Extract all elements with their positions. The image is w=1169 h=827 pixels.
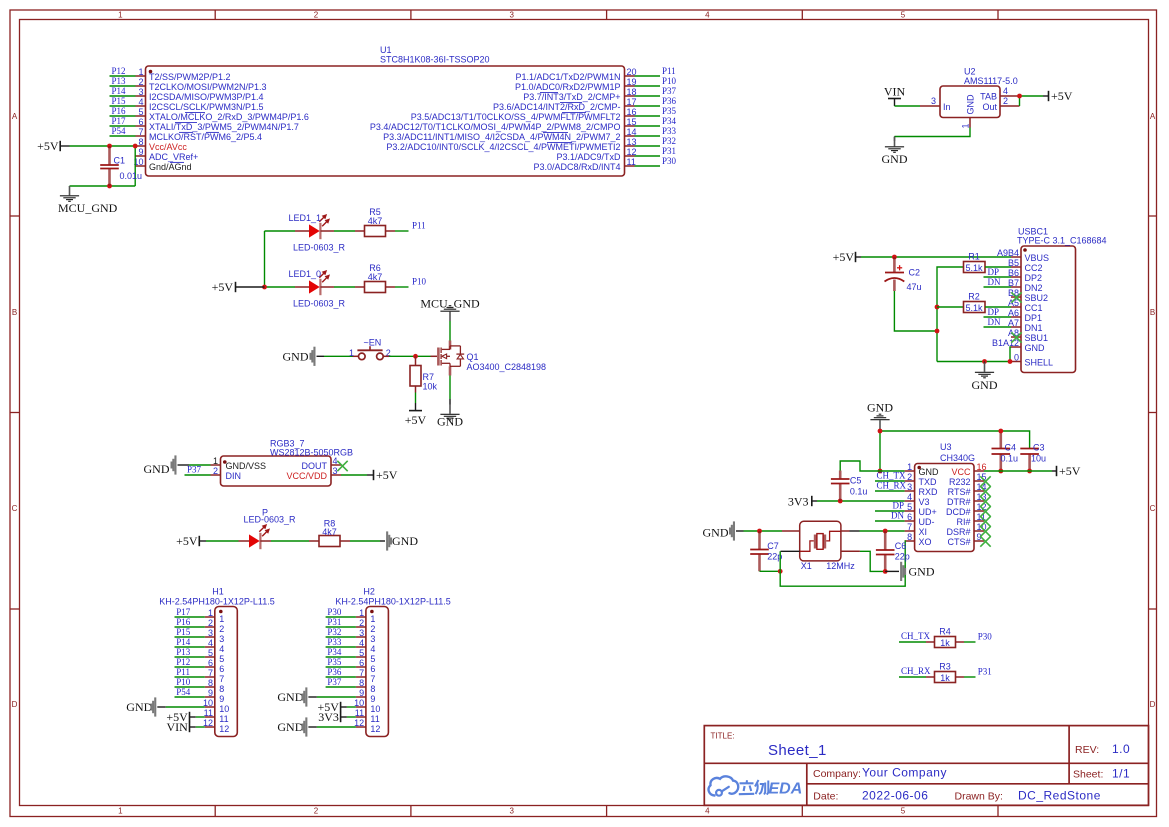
H2 pin 7: [356, 668, 376, 684]
svg-text:1: 1: [213, 456, 218, 466]
svg-text:Company:: Company:: [813, 768, 861, 780]
svg-text:GND: GND: [919, 467, 940, 477]
svg-text:TITLE:: TITLE:: [711, 732, 735, 741]
svg-text:5: 5: [370, 654, 375, 664]
svg-text:P32: P32: [662, 136, 676, 146]
U3 pin 15 R232: [949, 472, 987, 487]
svg-text:4k7: 4k7: [368, 272, 383, 282]
svg-text:P36: P36: [662, 96, 677, 106]
U1 pin 6 XTALI/TxD_3/PWM5_2/PWM4N/P1.7: [136, 117, 299, 132]
svg-text:8: 8: [208, 678, 213, 688]
svg-text:P31: P31: [978, 667, 992, 677]
svg-text:P30: P30: [978, 632, 993, 642]
svg-text:7: 7: [219, 674, 224, 684]
junction U2 TAB/Out: [1017, 94, 1022, 99]
connector H2 KH-2.54PH180-1X12P-L11.5 body: [335, 586, 450, 736]
RGB3_7 pin 1 GND/VSS: [211, 456, 267, 471]
svg-text:11: 11: [204, 708, 213, 718]
svg-text:P34: P34: [327, 647, 342, 657]
EasyEDA logo: [709, 776, 803, 797]
svg-text:MCU_GND: MCU_GND: [58, 201, 118, 215]
U1 pin 12 P3.1/ADC9/TxD: [556, 147, 636, 162]
svg-text:P10: P10: [662, 76, 677, 86]
H1 pin 8: [205, 678, 225, 694]
svg-text:VCC: VCC: [951, 467, 971, 477]
junction C6 bottom: [883, 569, 888, 574]
svg-text:Vcc/AVcc: Vcc/AVcc: [149, 142, 187, 152]
svg-text:3V3: 3V3: [788, 494, 809, 508]
wire and node P10 to H1 pin 8: [175, 677, 205, 687]
svg-text:4: 4: [219, 644, 224, 654]
svg-text:GND: GND: [283, 349, 309, 363]
svg-text:P1.0/ADC0/RxD2/PWM1P: P1.0/ADC0/RxD2/PWM1P: [515, 82, 621, 92]
svg-text:2: 2: [907, 472, 912, 482]
H2 pin 1: [356, 608, 376, 624]
svg-text:VIN: VIN: [884, 85, 906, 99]
U1 pin 9 ADC_VRef+: [136, 147, 199, 162]
wire crystal right-bottom to GND: [841, 551, 885, 571]
svg-text:GND: GND: [867, 401, 893, 415]
capacitor C3 10u: [1020, 442, 1046, 471]
ground flag GND (switch): [283, 347, 325, 366]
svg-text:SBU2: SBU2: [1025, 293, 1049, 303]
resistor R7 10k: [410, 356, 438, 392]
H2 pin 10: [354, 698, 380, 714]
svg-text:3: 3: [370, 634, 375, 644]
svg-text:DP: DP: [892, 501, 904, 511]
H2 pin 2: [356, 618, 376, 634]
svg-text:R4: R4: [939, 627, 951, 637]
svg-text:3: 3: [509, 807, 514, 816]
wire C5 top to GND net: [840, 461, 880, 471]
wire R8 to GND: [350, 540, 385, 542]
resistor R6 4k7: [334, 263, 395, 293]
svg-text:4: 4: [208, 638, 213, 648]
svg-text:4: 4: [1003, 86, 1008, 96]
wire and node P37 to RGB DIN: [185, 465, 211, 475]
junction C2 branch: [935, 329, 940, 334]
svg-text:P36: P36: [327, 667, 342, 677]
svg-text:LED1_0: LED1_0: [289, 269, 322, 279]
connector USBC1 TYPE-C 3.1_C168684 body: [1017, 226, 1107, 372]
svg-text:P11: P11: [662, 66, 676, 76]
svg-text:CH340G: CH340G: [940, 453, 975, 463]
svg-text:7: 7: [138, 127, 143, 137]
svg-text:Date:: Date:: [813, 791, 838, 803]
wire +5V branch between LED rows: [264, 231, 266, 287]
wire C7 bottom node: [760, 570, 781, 572]
USBC1 pin A7 DN1: [1008, 318, 1043, 333]
svg-text:A: A: [1150, 112, 1156, 121]
wire and node P17 to H1 pin 1: [175, 607, 205, 617]
svg-text:C5: C5: [850, 476, 862, 486]
U1 pin 4 I2CSCL/SCLK/PWM3N/P1.5: [136, 97, 264, 112]
svg-text:C: C: [1150, 504, 1156, 513]
svg-text:GND: GND: [144, 462, 170, 476]
svg-text:+5V: +5V: [176, 534, 198, 548]
wire and node P10 from U1 pin 19: [635, 76, 677, 86]
U3 pin 14 RTS#: [948, 482, 987, 497]
svg-text:P33: P33: [327, 637, 342, 647]
capacitor C6 22p: [876, 531, 910, 571]
svg-text:0.01u: 0.01u: [120, 171, 143, 181]
wire and node P11 from U1 pin 20: [635, 66, 676, 76]
svg-text:1: 1: [961, 123, 971, 128]
H1 pin 2: [205, 618, 225, 634]
wire and node P35 from U1 pin 16: [635, 106, 677, 116]
svg-text:+5V: +5V: [1059, 464, 1081, 478]
svg-text:I2CSDA/MISO/PWM3P/P1.4: I2CSDA/MISO/PWM3P/P1.4: [149, 92, 264, 102]
U3 pin 4 V3: [905, 492, 930, 507]
svg-text:8: 8: [907, 532, 912, 542]
svg-text:12: 12: [219, 724, 229, 734]
svg-text:1: 1: [208, 608, 213, 618]
junction XO branch: [778, 569, 783, 574]
wire +5V to VBUS: [861, 256, 1011, 258]
wire R4 to P30: [964, 632, 992, 643]
svg-text:6: 6: [208, 658, 213, 668]
wire GND to H1 pin 10: [166, 706, 205, 708]
svg-text:AO3400_C2848198: AO3400_C2848198: [467, 362, 547, 372]
wire VIN to U2 In: [895, 105, 921, 107]
svg-text:MCU_GND: MCU_GND: [420, 296, 480, 310]
svg-text:11: 11: [355, 708, 364, 718]
U1 pin 1 T2/SS/PWM2P/P1.2: [136, 67, 231, 82]
svg-text:6: 6: [370, 664, 375, 674]
wire MCU_GND to Q1 drain: [449, 321, 451, 341]
svg-text:4: 4: [907, 492, 912, 502]
junction U3 pin1 node: [878, 469, 883, 474]
svg-text:U1: U1: [380, 45, 392, 55]
H2 pin-1 marker: [370, 610, 374, 614]
wire and node P33 to H2 pin 4: [326, 637, 356, 647]
wire Q1 source to GND: [449, 376, 451, 405]
H2 pin 11: [355, 708, 380, 724]
svg-text:VBUS: VBUS: [1025, 253, 1050, 263]
wire and node P13 to U1 pin 2: [110, 76, 136, 86]
wire and node CH_TX to R4: [899, 631, 931, 642]
svg-text:7: 7: [907, 522, 912, 532]
regulator U2 AMS1117-5.0 body: [940, 67, 1018, 118]
junction +5V LED branch: [262, 285, 267, 290]
H1 pin 1: [205, 608, 225, 624]
svg-text:8: 8: [370, 684, 375, 694]
svg-text:T2CLKO/MOSI/PWM2N/P1.3: T2CLKO/MOSI/PWM2N/P1.3: [149, 82, 267, 92]
power flag +5V (H2 pin 10): [317, 700, 346, 714]
U1 pin-1 marker: [149, 70, 153, 74]
svg-text:TXD: TXD: [919, 477, 938, 487]
svg-text:6: 6: [219, 664, 224, 674]
svg-text:CH_TX: CH_TX: [877, 471, 907, 481]
wire GND rail above U3: [880, 431, 1030, 449]
svg-text:+5V: +5V: [37, 139, 59, 153]
svg-text:B: B: [1150, 308, 1155, 317]
wire GND to crystal: [744, 530, 783, 532]
svg-text:12MHz: 12MHz: [826, 561, 855, 571]
svg-text:TYPE-C 3.1_C168684: TYPE-C 3.1_C168684: [1017, 236, 1107, 246]
IC U1 STC8H1K08-36I-TSSOP20 body: [146, 45, 625, 176]
svg-text:U3: U3: [940, 442, 952, 452]
svg-text:9: 9: [138, 147, 143, 157]
USBC1 pin B8 SBU2: [1008, 288, 1048, 303]
svg-text:P12: P12: [176, 657, 190, 667]
U3 pin 13 DTR#: [947, 492, 987, 507]
IC RGB3_7 WS2812B-5050RGB body: [221, 438, 354, 486]
wire and node P37 to H2 pin 8: [326, 677, 356, 687]
svg-text:R1: R1: [968, 251, 980, 261]
svg-text:RTS#: RTS#: [948, 487, 971, 497]
svg-text:XTALO/MCLKO_2/RxD_3/PWM4P/P1.6: XTALO/MCLKO_2/RxD_3/PWM4P/P1.6: [149, 112, 309, 122]
wire and node P15 to U1 pin 4: [110, 96, 136, 106]
H1 pin 12: [203, 718, 229, 734]
junction at U1 pin 8: [133, 144, 138, 149]
H2 pin 5: [356, 648, 376, 664]
wire to U3 GND pin 1: [880, 470, 905, 472]
junction GND rail: [878, 429, 883, 434]
svg-text:CH_TX: CH_TX: [901, 631, 931, 641]
wire GND to switch pin 1: [324, 355, 359, 357]
no-connect on RGB DOUT: [337, 461, 347, 471]
svg-text:C2: C2: [909, 268, 921, 278]
svg-text:1k: 1k: [940, 673, 950, 683]
svg-text:P30: P30: [327, 607, 342, 617]
power flag +5V (U2 output): [1049, 89, 1073, 103]
svg-text:CC2: CC2: [1025, 263, 1043, 273]
resistor R8 4k7: [271, 519, 350, 547]
svg-text:LED-0603_R: LED-0603_R: [293, 299, 346, 309]
wire and node P36 to H2 pin 7: [326, 667, 356, 677]
svg-text:5: 5: [907, 502, 912, 512]
svg-text:I2CSCL/SCLK/PWM3N/P1.5: I2CSCL/SCLK/PWM3N/P1.5: [149, 102, 264, 112]
no-connect marks on U3 unused pins: [980, 476, 990, 546]
svg-text:X1: X1: [801, 561, 812, 571]
svg-text:GND: GND: [966, 94, 976, 115]
H2 pin 12: [354, 718, 380, 734]
svg-text:0.1u: 0.1u: [850, 487, 868, 497]
overline marks on U1 pin names: [170, 92, 586, 162]
svg-text:P14: P14: [176, 637, 191, 647]
svg-text:1: 1: [118, 11, 123, 20]
svg-text:P3.6/ADC14/INT2/RxD_2/CMP-: P3.6/ADC14/INT2/RxD_2/CMP-: [493, 102, 621, 112]
svg-text:5: 5: [208, 648, 213, 658]
svg-text:3: 3: [359, 628, 364, 638]
wire and node P34 to H2 pin 5: [326, 647, 356, 657]
svg-text:0: 0: [1014, 353, 1019, 363]
svg-text:DN: DN: [891, 511, 904, 521]
ground MCU_GND (C1): [58, 186, 118, 215]
wire and node P30 to H2 pin 1: [326, 607, 356, 617]
ground flag GND (C6): [885, 562, 935, 581]
IC U3 CH340G body: [915, 442, 975, 552]
U3 pin 5 UD+: [905, 502, 937, 517]
svg-text:3: 3: [907, 482, 912, 492]
svg-text:P17: P17: [112, 116, 127, 126]
wire and node P17 to U1 pin 6: [110, 116, 136, 126]
svg-text:DN2: DN2: [1025, 283, 1043, 293]
wire CC branch vertical: [937, 267, 964, 362]
svg-text:P3.1/ADC9/TxD: P3.1/ADC9/TxD: [556, 152, 621, 162]
svg-text:6: 6: [907, 512, 912, 522]
wire 3V3 to H2 pin 11: [347, 716, 356, 718]
svg-text:P54: P54: [112, 126, 127, 136]
svg-text:P32: P32: [327, 627, 341, 637]
power flag 3V3: [788, 494, 817, 508]
wire R1 to CC2: [985, 266, 1011, 268]
wire and node P34 from U1 pin 15: [635, 116, 677, 126]
ground GND (U2): [882, 137, 908, 166]
svg-text:+5V: +5V: [212, 280, 234, 294]
svg-text:+5V: +5V: [376, 468, 398, 482]
U3 pin 16 VCC: [951, 462, 986, 477]
svg-text:XTALI/TxD_3/PWM5_2/PWM4N/P1.7: XTALI/TxD_3/PWM5_2/PWM4N/P1.7: [149, 122, 299, 132]
svg-text:4k7: 4k7: [368, 216, 383, 226]
RGB3_7 pin-1 marker: [223, 460, 227, 464]
U3 pin 11 RI#: [956, 512, 985, 527]
svg-text:P54: P54: [176, 687, 191, 697]
USBC1 pin A6 DP1: [1008, 308, 1042, 323]
junction C2 top: [892, 255, 897, 260]
RGB3_7 pin 3 VCC/VDD: [286, 466, 341, 481]
svg-text:P34: P34: [662, 116, 677, 126]
svg-text:P37: P37: [327, 677, 342, 687]
H2 pin 4: [356, 638, 376, 654]
resistor R1 5.1k: [964, 251, 986, 272]
svg-text:DSR#: DSR#: [946, 527, 970, 537]
junction C7 top: [757, 529, 762, 534]
svg-text:DOUT: DOUT: [302, 461, 328, 471]
wire and node DN to U3 UD-: [875, 511, 905, 521]
svg-text:4: 4: [705, 807, 710, 816]
svg-text:5: 5: [359, 648, 364, 658]
junction C5 bottom: [838, 499, 843, 504]
svg-text:H1: H1: [212, 586, 224, 596]
U3 pin 10 DSR#: [946, 522, 986, 537]
wire and node DP to USBC1 pin at y=277: [984, 267, 1012, 277]
U3 pin 2 TXD: [905, 472, 937, 487]
svg-text:8: 8: [219, 684, 224, 694]
svg-text:1k: 1k: [940, 638, 950, 648]
svg-text:GND: GND: [437, 415, 463, 429]
wire and node CH_RX to R3: [899, 666, 931, 677]
USBC1 pin A9B4 VBUS: [997, 248, 1049, 263]
wire R6 to P10: [395, 277, 427, 287]
svg-text:4: 4: [359, 638, 364, 648]
wire and node P54 to U1 pin 7: [110, 126, 136, 136]
svg-text:DN: DN: [988, 317, 1001, 327]
svg-text:10u: 10u: [1031, 453, 1046, 463]
svg-text:P12: P12: [112, 66, 126, 76]
svg-text:2: 2: [314, 11, 319, 20]
U2 pin 2 Out: [1000, 96, 1020, 106]
junction C4 top: [998, 429, 1003, 434]
power flag +5V (VBUS): [833, 250, 861, 264]
wire R7 to +5V: [415, 393, 417, 411]
connector H1 KH-2.54PH180-1X12P-L11.5 body: [159, 586, 274, 736]
svg-text:P13: P13: [112, 76, 127, 86]
svg-text:Q1: Q1: [467, 352, 479, 362]
junction GND pin branch: [1008, 359, 1013, 364]
svg-text:GND: GND: [703, 525, 729, 539]
junction R2 branch: [935, 305, 940, 310]
H1 pin 5: [205, 648, 225, 664]
svg-text:11: 11: [627, 157, 636, 167]
wire switch pin 2 to Q1 gate: [383, 355, 430, 357]
wire and node P54 to H1 pin 9: [175, 687, 205, 697]
svg-text:6: 6: [138, 117, 143, 127]
crystal X1 12MHz: [800, 521, 856, 571]
wire crystal left-bottom lead: [780, 551, 800, 571]
svg-text:8: 8: [138, 137, 143, 147]
junction C6 top: [883, 529, 888, 534]
wire and node CH_TX to U3 TXD: [875, 471, 906, 481]
svg-text:22p: 22p: [895, 552, 910, 562]
svg-text:P10: P10: [412, 277, 427, 287]
svg-text:DN: DN: [988, 277, 1001, 287]
svg-text:GND: GND: [972, 378, 998, 392]
svg-text:WS2812B-5050RGB: WS2812B-5050RGB: [270, 447, 353, 457]
svg-text:P37: P37: [187, 465, 202, 475]
svg-text:11: 11: [219, 714, 228, 724]
wire C1 ground return: [70, 185, 136, 187]
wire +5V to LED1_0: [265, 286, 296, 288]
wire RGB VCC to +5V: [341, 474, 374, 476]
svg-text:+5V: +5V: [1051, 89, 1073, 103]
svg-text:P13: P13: [176, 647, 191, 657]
USBC1 pin 0 SHELL: [1011, 353, 1053, 368]
svg-text:9: 9: [370, 694, 375, 704]
svg-text:2022-06-06: 2022-06-06: [862, 788, 928, 802]
USBC1 pin B1A12 GND: [992, 338, 1045, 353]
wire and node P30 from U1 pin 11: [635, 156, 677, 166]
U3 pin 8 XO: [905, 532, 932, 547]
U3 pin 12 DCD#: [946, 502, 987, 517]
svg-text:1.0: 1.0: [1112, 742, 1130, 756]
wire and node P15 to H1 pin 3: [175, 627, 205, 637]
U1 pin 14 P3.3/ADC11/INT1/MISO_4/I2CSDA_4/PWM4N_2/PWM7_2: [383, 127, 636, 142]
ground flag GND (H1 pin 10): [126, 697, 166, 716]
U2 pin 1 GND: [961, 118, 971, 129]
svg-text:1: 1: [359, 608, 364, 618]
svg-text:C7: C7: [767, 541, 779, 551]
H1 pin 6: [205, 658, 225, 674]
svg-text:EDA: EDA: [769, 781, 803, 798]
junction C3 bottom: [1027, 469, 1032, 474]
RGB3_7 pin 2 DIN: [211, 466, 242, 481]
no-connect on SBU1: [1011, 332, 1021, 342]
svg-text:P3.5/ADC13/T1/T0CLKO/SS_4/PWMF: P3.5/ADC13/T1/T0CLKO/SS_4/PWMFLT/PWMFLT2: [411, 112, 621, 122]
wire R5 to P11: [395, 221, 426, 231]
svg-text:CTS#: CTS#: [947, 537, 970, 547]
wire GND down to U3 pin 1: [879, 431, 881, 471]
svg-text:4: 4: [333, 456, 338, 466]
H1 pin 11: [204, 708, 229, 724]
svg-text:2: 2: [1003, 96, 1008, 106]
U1 pin 7 MCLKO/RST/PWM6_2/P5.4: [136, 127, 263, 142]
U1 pin 18 P3.7/INT3/TxD_2/CMP+: [523, 87, 636, 102]
wire GND to H2 pin 12: [317, 726, 356, 728]
svg-text:1: 1: [138, 67, 143, 77]
wire and node P14 to U1 pin 3: [110, 86, 136, 96]
U1 pin 8 Vcc/AVcc: [136, 137, 188, 152]
svg-text:7: 7: [359, 668, 364, 678]
U3 pin 9 CTS#: [947, 532, 984, 547]
svg-text:GND: GND: [882, 152, 908, 166]
svg-text:4k7: 4k7: [322, 527, 337, 537]
title block frame: [704, 726, 1148, 806]
U1 pin 2 T2CLKO/MOSI/PWM2N/P1.3: [136, 77, 267, 92]
power flag VIN (H1 pin 12): [166, 720, 195, 734]
U3 pin 6 UD-: [905, 512, 935, 527]
